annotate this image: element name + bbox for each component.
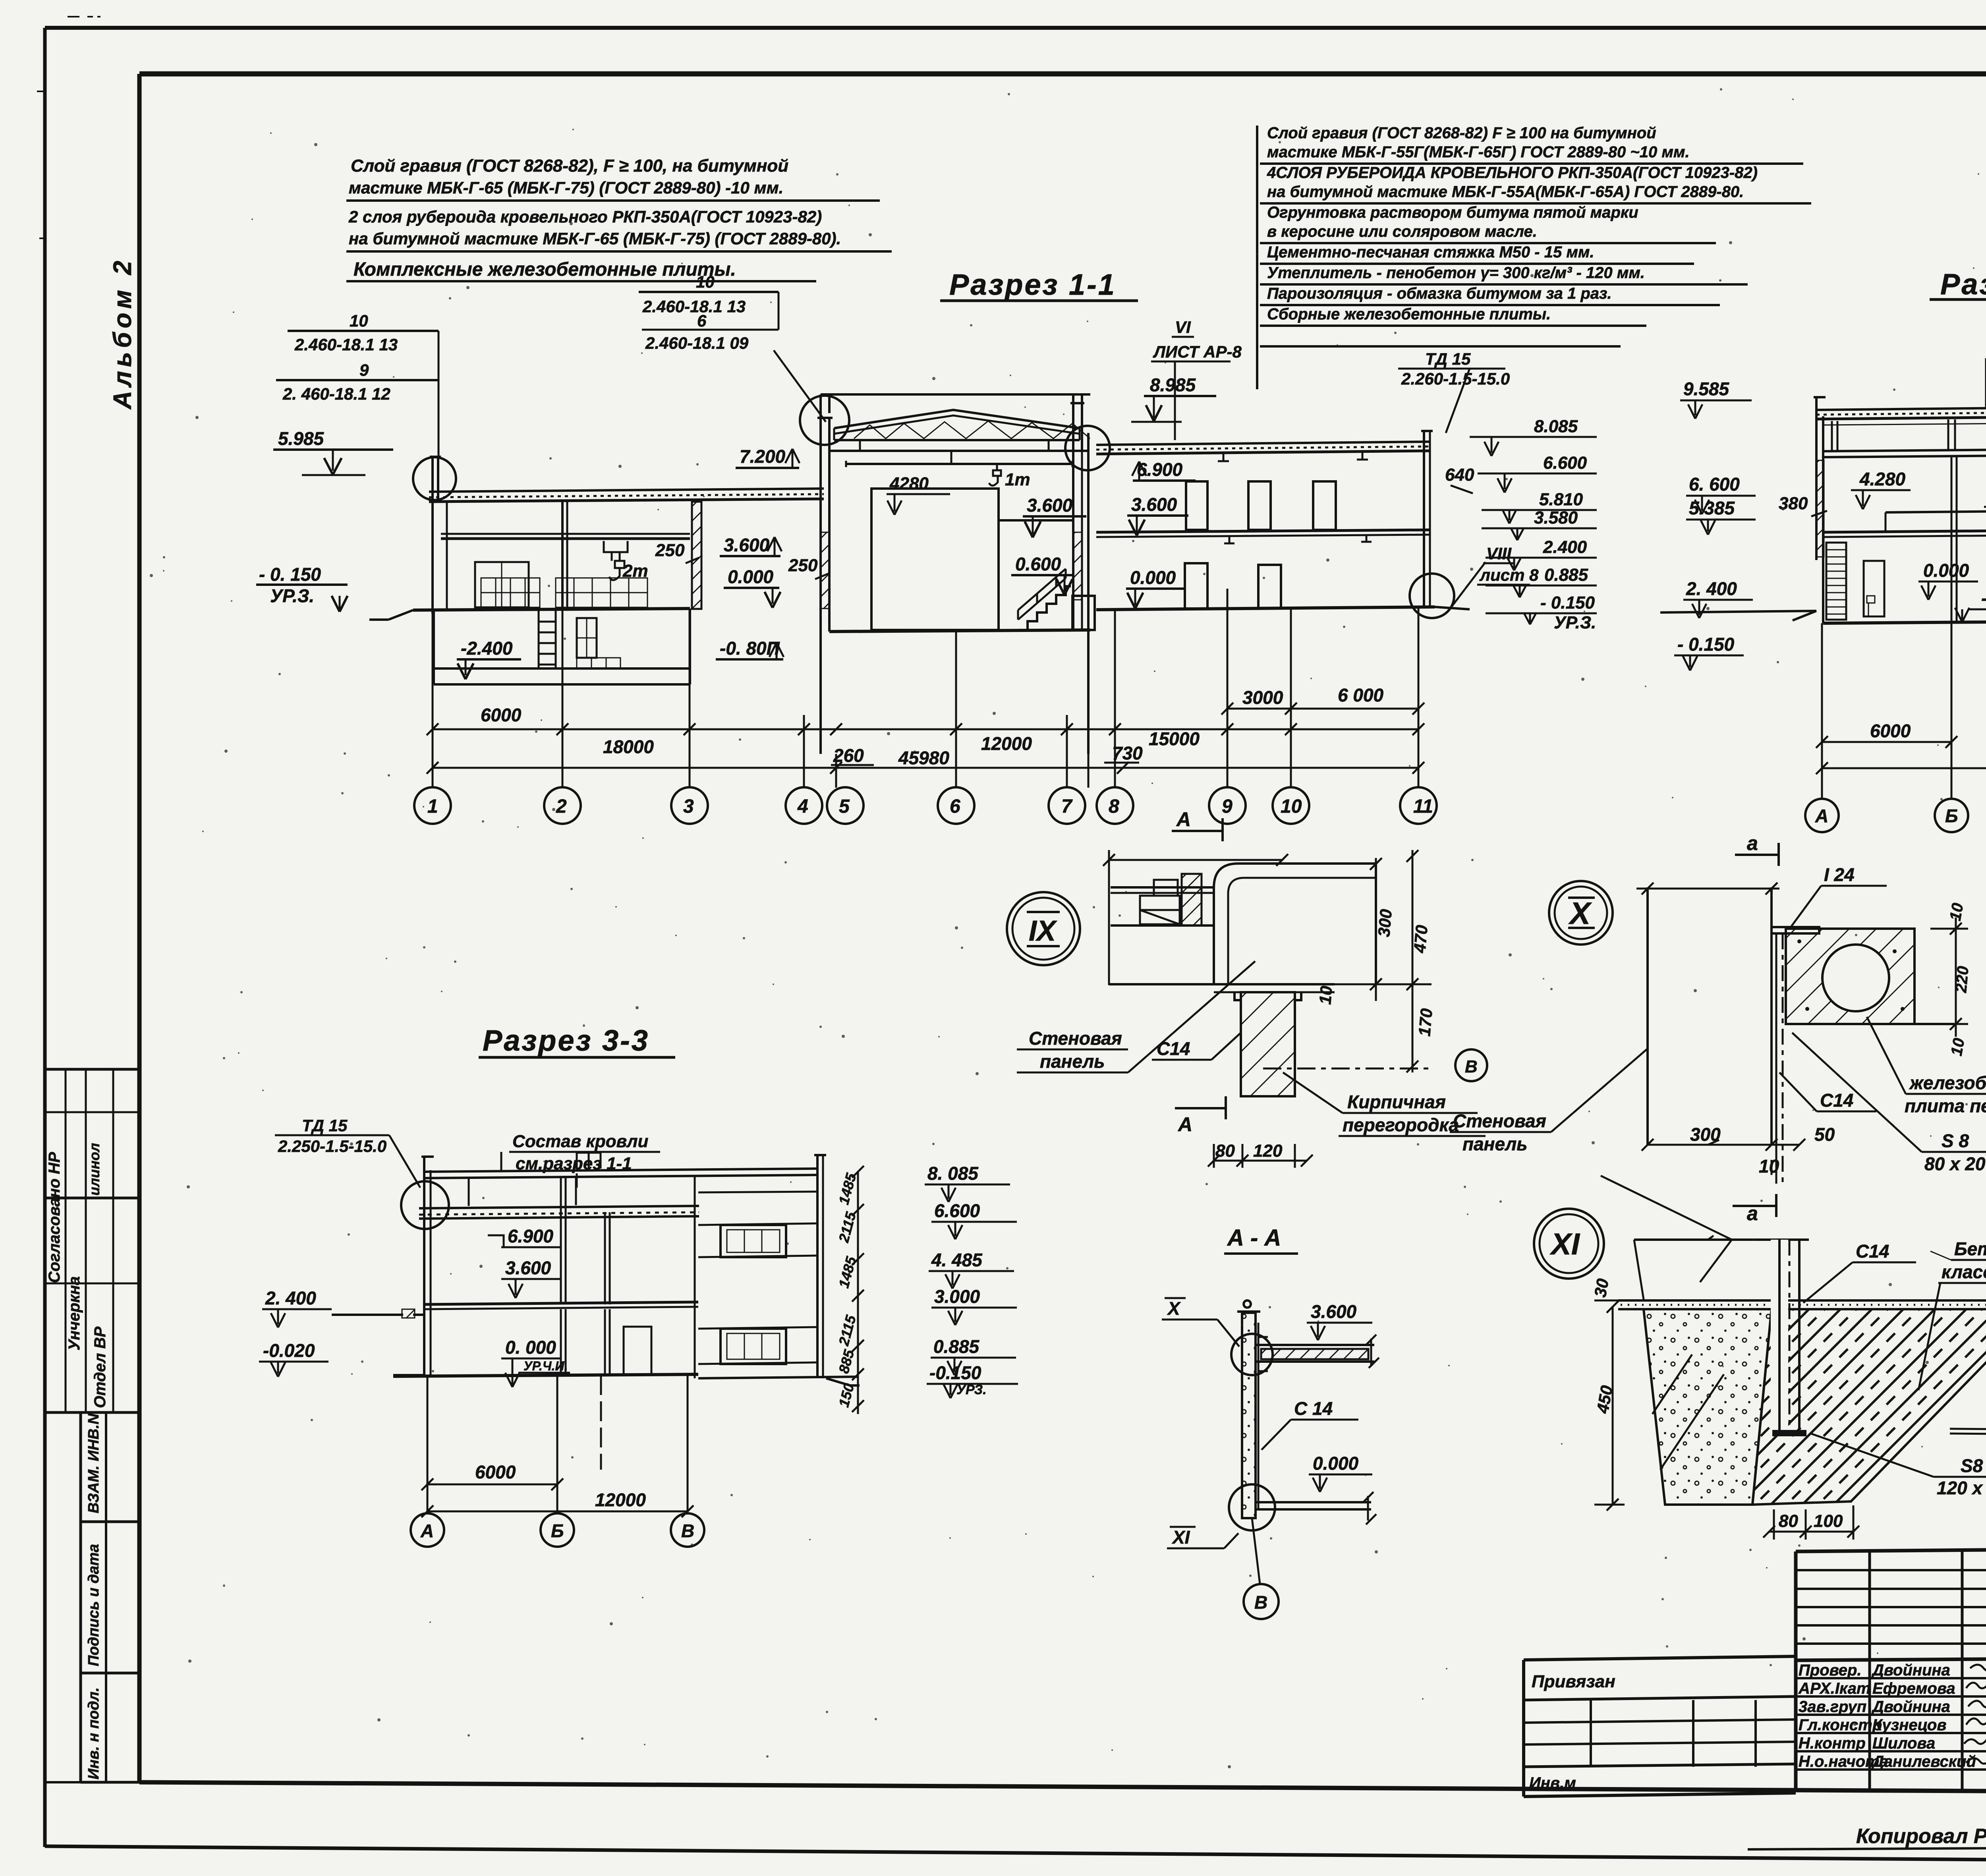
column axis2 (562, 502, 567, 609)
svg-text:2. 400: 2. 400 (265, 1288, 316, 1308)
second floor slab right bldg (1096, 530, 1430, 543)
svg-text:- 0. 150: - 0. 150 (259, 564, 321, 585)
lower slab A-A (1256, 1492, 1376, 1524)
section mark a bottom (1733, 1194, 1776, 1225)
node circle axis1 top (413, 457, 456, 500)
svg-text:11: 11 (1413, 796, 1433, 817)
svg-text:170: 170 (1415, 1008, 1436, 1037)
svg-text:Сборные железобетонные плиты: Сборные железобетонные плиты. (1267, 305, 1551, 323)
svg-text:6000: 6000 (1870, 721, 1911, 741)
svg-text:300: 300 (1374, 908, 1395, 938)
title Razrez 2-2 (1940, 268, 1986, 301)
crane beam level line (441, 534, 690, 539)
big equipment block 4280 (871, 489, 999, 630)
svg-text:4СЛОЯ РУБЕРОИДА КРОВЕЛЬНОГО РК: 4СЛОЯ РУБЕРОИДА КРОВЕЛЬНОГО РКП-350А(ГОС… (1267, 164, 1758, 182)
svg-text:100: 100 (1814, 1511, 1843, 1531)
svg-text:1: 1 (427, 796, 438, 817)
section mark A near IX (1172, 808, 1223, 841)
label 4280 (887, 474, 950, 515)
outer border top (45, 26, 1986, 30)
svg-text:4: 4 (797, 796, 808, 817)
ground slab 2-2 (1660, 610, 1986, 623)
a mark XI (0, 0, 1, 1)
X marker top (1162, 1298, 1239, 1347)
XI concrete slab (1752, 1309, 1986, 1505)
inner frame bottom (139, 1782, 1986, 1794)
level 7.200 (736, 446, 800, 468)
svg-text:А: А (1177, 1113, 1192, 1136)
svg-text:Двойнина: Двойнина (1871, 1698, 1950, 1716)
svg-text:10: 10 (1947, 902, 1967, 922)
fold marks (37, 17, 100, 238)
svg-text:Инв. н подл.: Инв. н подл. (85, 1687, 102, 1779)
svg-text:Б: Б (1945, 806, 1958, 826)
svg-text:80 x 200: 80 x 200 (1924, 1153, 1986, 1174)
svg-text:220: 220 (1952, 965, 1972, 993)
window band + 6.600 slab (1823, 416, 1986, 457)
right bldg right wall (1421, 431, 1433, 608)
IX labels (1017, 961, 1486, 1136)
svg-text:- 0.150: - 0.150 (1540, 593, 1595, 612)
VIII list 8 label (1477, 544, 1539, 585)
roof slab right bldg (1096, 442, 1430, 461)
right levels stack of razrez 1-1 (1445, 417, 1597, 632)
mid slab high bay right part (999, 519, 1130, 522)
svg-text:Слой гравия (ГОСТ 8268-82) F: Слой гравия (ГОСТ 8268-82) F ≥ 100 на би… (1267, 124, 1656, 142)
svg-text:Комплексные железобетонные: Комплексные железобетонные плиты. (354, 259, 736, 280)
svg-text:5.810: 5.810 (1539, 490, 1583, 509)
svg-text:С 14: С 14 (1294, 1398, 1333, 1419)
svg-text:плита перекрытия: плита перекрытия (1905, 1095, 1986, 1116)
XI labels (1803, 1241, 1916, 1303)
svg-text:а: а (1747, 832, 1758, 854)
small ledge left 3-3 (332, 1315, 425, 1375)
svg-text:6000: 6000 (475, 1462, 516, 1482)
svg-text:15000: 15000 (1149, 728, 1200, 749)
right levels stack 3-3 (925, 1163, 1018, 1398)
svg-text:0.885: 0.885 (933, 1336, 980, 1357)
inner frame top thick (139, 71, 1986, 77)
svg-text:2115: 2115 (835, 1313, 859, 1348)
XI pit top (1601, 1176, 1809, 1299)
levels 6.900 3.600 (488, 1226, 561, 1298)
svg-text:45980: 45980 (898, 748, 949, 768)
svg-text:7: 7 (1061, 796, 1073, 817)
privyazan table (1524, 1656, 1796, 1797)
IX bottom dims 80 120 (1208, 1141, 1313, 1168)
outer border left (43, 28, 47, 1847)
dim row2 total (427, 743, 1424, 774)
column mid (446, 502, 448, 609)
svg-text:Утеплитель - пенобетон γ= 300: Утеплитель - пенобетон γ= 300 кг/м³ - 12… (1267, 264, 1645, 282)
left grid small rows (1796, 1551, 1986, 1790)
ur.z ground right extension (1435, 607, 1470, 609)
svg-text:250: 250 (655, 541, 685, 560)
bubble G above (0, 0, 1, 1)
stairs 2-2 (1826, 543, 1884, 620)
svg-text:2. 400: 2. 400 (1686, 578, 1737, 599)
svg-text:С14: С14 (1157, 1038, 1190, 1059)
svg-text:8: 8 (1109, 796, 1119, 817)
suspended ceiling beam (830, 440, 1088, 467)
svg-text:3.600: 3.600 (1027, 495, 1073, 516)
X bottom dims 300 50 10 (1642, 1124, 1835, 1177)
ref label above high bay 10/13 6/09 (639, 272, 826, 422)
stairs high bay (1018, 569, 1095, 630)
svg-text:0.000: 0.000 (728, 566, 774, 587)
dim 380 (1779, 494, 1827, 516)
ground line step left (369, 610, 413, 620)
hatched partition axis3 (692, 502, 701, 609)
level -0.800 (716, 638, 784, 659)
svg-text:ТД 15: ТД 15 (1425, 350, 1471, 368)
svg-text:470: 470 (1410, 924, 1431, 954)
svg-text:- 0. 800: - 0. 800 (1981, 588, 1986, 609)
X labels plita (1867, 1017, 1986, 1116)
svg-text:мастике МБК-Г-55Г(МБК-Г-65Г) Г: мастике МБК-Г-55Г(МБК-Г-65Г) ГОСТ 2889-8… (1267, 143, 1690, 161)
level 0.600 (1011, 554, 1072, 595)
svg-text:7.200: 7.200 (740, 446, 786, 467)
svg-text:4.280: 4.280 (1859, 469, 1906, 489)
hatched left wall patch (1816, 460, 1824, 557)
svg-text:Данилевский: Данилевский (1871, 1753, 1976, 1770)
svg-text:3.600: 3.600 (724, 535, 770, 555)
svg-text:Стеновая: Стеновая (1029, 1028, 1122, 1049)
svg-text:Альбом 2: Альбом 2 (108, 257, 137, 410)
level mark -0.150 UR.Z. left (256, 564, 348, 612)
svg-text:12000: 12000 (981, 733, 1032, 754)
VI list AR-8 marker (1151, 318, 1242, 440)
XI column (1772, 1240, 1806, 1436)
svg-text:3.000: 3.000 (934, 1286, 980, 1307)
svg-text:С14: С14 (1856, 1241, 1889, 1262)
svg-text:УР.З.: УР.З. (1554, 613, 1596, 632)
svg-text:X: X (1568, 896, 1592, 931)
svg-text:на битумной мастике МБК-Г-65 (: на битумной мастике МБК-Г-65 (МБК-Г-75) … (349, 229, 841, 248)
svg-text:2 слоя рубероида кровельного: 2 слоя рубероида кровельного РКП-350А(ГО… (348, 207, 822, 226)
svg-text:Х: Х (1167, 1298, 1181, 1319)
svg-text:10: 10 (1948, 1037, 1968, 1057)
svg-text:250: 250 (788, 556, 818, 575)
svg-text:4. 485: 4. 485 (931, 1250, 983, 1270)
basement floor (689, 609, 691, 684)
XI left dims 30 450 (1591, 1277, 1625, 1511)
svg-text:4280: 4280 (889, 474, 929, 493)
svg-text:10: 10 (1316, 985, 1336, 1005)
IX floor line (1109, 984, 1335, 992)
node bubble V (B) (1455, 1049, 1487, 1081)
svg-text:10: 10 (696, 272, 715, 291)
svg-text:I 24: I 24 (1824, 864, 1855, 885)
node circle axis7/8 (1065, 426, 1110, 470)
svg-text:80: 80 (1215, 1141, 1235, 1161)
sostav krovli 3-3 (501, 1132, 660, 1188)
X right dim 10/220/10 (1930, 902, 1972, 1057)
level 3.600 left bldg (720, 535, 782, 556)
bubbles A B V G (1805, 799, 1986, 832)
svg-text:5.985: 5.985 (278, 428, 325, 449)
svg-text:А: А (420, 1521, 434, 1541)
svg-text:9: 9 (1222, 796, 1233, 817)
detail circle XI (1534, 1209, 1604, 1279)
high bay right wall (1070, 403, 1088, 754)
svg-text:-0.020: -0.020 (263, 1340, 315, 1361)
svg-text:В: В (1254, 1592, 1267, 1613)
building 3-3 walls (421, 1155, 826, 1378)
svg-text:УР.З.: УР.З. (270, 585, 314, 606)
svg-text:6.600: 6.600 (934, 1200, 980, 1221)
dims 3-3 (421, 1462, 694, 1517)
level mark 5.985 (273, 428, 393, 475)
svg-text:Унчеркна: Унчеркна (66, 1276, 83, 1350)
svg-text:2.460-18.1 13: 2.460-18.1 13 (642, 297, 746, 316)
svg-text:1485: 1485 (835, 1254, 860, 1290)
wall A-A (1237, 1300, 1260, 1518)
svg-text:S 8: S 8 (1942, 1130, 1969, 1151)
node circle upper (1231, 1334, 1273, 1375)
svg-text:Состав кровли: Состав кровли (512, 1132, 649, 1151)
outline walls (1814, 397, 1986, 623)
top-left roofing spec text block (348, 156, 841, 280)
bubbles 3-3 (411, 1513, 704, 1547)
svg-text:3.600: 3.600 (505, 1258, 551, 1278)
bottom handwriting (1856, 1811, 1986, 1851)
svg-text:2: 2 (556, 796, 567, 817)
svg-text:730: 730 (1112, 743, 1143, 763)
left wall axis1 (430, 457, 441, 614)
XI marker (1167, 1527, 1238, 1548)
svg-text:0.000: 0.000 (1130, 567, 1176, 588)
svg-text:120 x 200: 120 x 200 (1937, 1478, 1986, 1498)
svg-text:6: 6 (697, 311, 707, 330)
svg-text:АРХ.Iкат: АРХ.Iкат (1798, 1680, 1871, 1697)
IX bottom section mark A (1175, 1096, 1226, 1136)
svg-text:В: В (681, 1521, 694, 1541)
svg-text:6.900: 6.900 (508, 1226, 554, 1246)
roof slab left bldg (429, 489, 824, 502)
node circle axis4/5 (800, 396, 849, 445)
vertical dim chain 3-3 (835, 1166, 864, 1414)
svg-text:2. 460-18.1 12: 2. 460-18.1 12 (282, 384, 390, 403)
svg-text:0.600: 0.600 (1015, 554, 1061, 574)
IX top dim line (1103, 850, 1288, 985)
0.000 level A-A (1309, 1453, 1372, 1492)
svg-text:Цементно-песчаная стяжка М50 -: Цементно-песчаная стяжка М50 - 15 мм. (1267, 243, 1594, 261)
crane hook 2t (604, 541, 648, 581)
svg-text:перегородка: перегородка (1343, 1115, 1459, 1135)
svg-text:2.460-18.1 09: 2.460-18.1 09 (645, 334, 749, 352)
svg-text:80: 80 (1779, 1511, 1798, 1531)
svg-text:Гл.констр: Гл.констр (1799, 1716, 1882, 1734)
X slab hatched with hole (1786, 929, 1954, 1024)
C14 label A-A (1262, 1398, 1358, 1450)
vent stacks ground floor (1185, 563, 1281, 609)
svg-text:5: 5 (839, 796, 850, 817)
svg-text:S8: S8 (1961, 1455, 1983, 1476)
svg-text:илинол: илинол (86, 1143, 102, 1196)
svg-text:Кузнецов: Кузнецов (1872, 1716, 1947, 1734)
svg-text:Разрез 2-2: Разрез 2-2 (1940, 268, 1986, 301)
equipment tables left bldg (475, 562, 647, 607)
mid slab 3-3 (402, 1302, 698, 1318)
svg-text:2115: 2115 (835, 1210, 859, 1244)
svg-text:Стеновая: Стеновая (1453, 1111, 1546, 1131)
svg-text:Провер.: Провер. (1799, 1662, 1862, 1679)
dim sub row 3000/6000 (1221, 685, 1424, 715)
svg-text:9.585: 9.585 (1683, 379, 1730, 399)
IX brick partition (1234, 992, 1301, 1096)
svg-text:0. 000: 0. 000 (505, 1337, 556, 1358)
svg-text:12000: 12000 (595, 1490, 646, 1510)
right elevation band 3-3 (698, 1192, 817, 1364)
svg-text:ВЗАМ. ИНВ.N: ВЗАМ. ИНВ.N (85, 1413, 102, 1513)
svg-text:железобетонная: железобетонная (1909, 1072, 1986, 1093)
level 0.000 left bldg (724, 566, 780, 608)
staff names (1798, 1662, 1976, 1770)
svg-text:640: 640 (1445, 465, 1474, 485)
svg-text:Инв.м: Инв.м (1529, 1774, 1576, 1792)
title (483, 1024, 649, 1057)
detail circle IX (1007, 892, 1080, 965)
svg-text:6: 6 (950, 796, 960, 817)
high bay floor (829, 630, 1090, 632)
dim 250 left (655, 541, 699, 563)
svg-text:ЛИСТ АР-8: ЛИСТ АР-8 (1153, 342, 1242, 361)
ground floor slab left bldg (413, 609, 690, 610)
svg-text:на битумной мастике МБК-Г-55А(: на битумной мастике МБК-Г-55А(МБК-Г-65А)… (1267, 183, 1744, 201)
1t hook (989, 464, 1030, 489)
svg-text:120: 120 (1253, 1141, 1283, 1161)
basement stairs (539, 611, 556, 668)
svg-text:10: 10 (1759, 1156, 1779, 1177)
axes 3-3 (427, 1375, 688, 1513)
svg-text:50: 50 (1814, 1124, 1835, 1145)
svg-text:Разрез 3-3: Разрез 3-3 (483, 1024, 649, 1057)
svg-text:Бетон: Бетон (1954, 1238, 1986, 1259)
interior columns 3-3 (561, 1175, 695, 1378)
svg-text:2.260-1.5-15.0: 2.260-1.5-15.0 (1401, 369, 1510, 388)
svg-text:Огрунтовка раствором битума п: Огрунтовка раствором битума пятой марки (1267, 204, 1638, 221)
svg-text:6000: 6000 (481, 705, 522, 725)
node circle lower (1229, 1484, 1275, 1530)
svg-text:8. 085: 8. 085 (927, 1163, 979, 1184)
axes 2-2 (1822, 622, 1986, 798)
top-right roofing spec block (1267, 124, 1758, 323)
XI bottom dims 80 100 (1763, 1505, 1859, 1540)
svg-text:Пароизоляция - обмазка битумом: Пароизоляция - обмазка битумом за 1 раз. (1267, 285, 1612, 302)
left margin stamp lower boxes (46, 1412, 139, 1782)
svg-text:10: 10 (350, 311, 368, 330)
svg-text:Разрез 1-1: Разрез 1-1 (949, 268, 1116, 301)
signatures squiggles (1964, 1665, 1986, 1764)
level 3.600 right bldg (1127, 494, 1188, 535)
svg-text:мастике МБК-Г-65 (МБК-Г-75) (Г: мастике МБК-Г-65 (МБК-Г-75) (ГОСТ 2889-8… (349, 178, 783, 197)
level 0.000 right bldg (1126, 567, 1186, 609)
svg-text:УР.Ч.И.: УР.Ч.И. (524, 1359, 568, 1373)
svg-text:0.000: 0.000 (1313, 1453, 1359, 1474)
svg-text:VI: VI (1175, 318, 1191, 336)
left margin stamp upper table (46, 1069, 139, 1412)
svg-text:панель: панель (1040, 1051, 1105, 1072)
XI pit trapezoid (1644, 1309, 1772, 1505)
wall axis4/5 hatched (817, 418, 833, 754)
svg-text:3ав.груп: 3ав.груп (1799, 1698, 1866, 1716)
ground floor slab right bldg (1096, 607, 1435, 610)
svg-text:6 0​00: 6 0​00 (1338, 685, 1384, 705)
svg-text:260: 260 (833, 745, 864, 766)
svg-text:18000: 18000 (603, 736, 654, 757)
X stenovaya panel label (1450, 1049, 1648, 1154)
svg-text:Кирпичная: Кирпичная (1347, 1092, 1446, 1112)
svg-text:Б: Б (551, 1521, 564, 1541)
IX window assembly (1111, 874, 1214, 925)
svg-text:0.000: 0.000 (1923, 560, 1969, 581)
interior columns 2-2 (1951, 456, 1986, 622)
svg-text:Двойнина: Двойнина (1871, 1662, 1950, 1679)
IX wall panel (1214, 864, 1376, 984)
svg-text:1485: 1485 (835, 1171, 860, 1206)
svg-text:3: 3 (683, 796, 694, 817)
basement window (577, 618, 620, 668)
section title Razrez 1-1 (949, 268, 1116, 301)
svg-text:А: А (1815, 806, 1828, 826)
svg-text:Привязан: Привязан (1532, 1672, 1615, 1691)
X wall panel (1636, 883, 1779, 1145)
svg-text:в керосине или соляровом масл: в керосине или соляровом масле. (1267, 223, 1537, 240)
svg-text:А: А (1176, 808, 1191, 831)
IX right dims (1263, 850, 1436, 1072)
svg-text:ХI: ХI (1171, 1527, 1190, 1548)
main outline (1796, 1545, 1986, 1790)
mid slab 2-2 (1823, 510, 1986, 537)
svg-text:3000: 3000 (1242, 687, 1283, 708)
node circle VIII bottom right (1410, 562, 1486, 618)
svg-text:XI: XI (1549, 1227, 1580, 1261)
svg-text:3.600: 3.600 (1311, 1301, 1357, 1322)
dims 2-2 (1816, 721, 1986, 774)
inner frame left (137, 74, 142, 1782)
ref label 9/2.460-18.1 12 left (276, 361, 439, 403)
svg-text:3.600: 3.600 (1131, 494, 1177, 515)
svg-text:Подпись и дата: Подпись и дата (85, 1544, 102, 1666)
level -2.400 (457, 638, 521, 679)
svg-text:150: 150 (835, 1381, 857, 1409)
TD15 label top (1398, 350, 1510, 433)
outer border bottom (45, 1846, 1986, 1864)
XI right dims 130 300 8 (1950, 1291, 1986, 1451)
I24 label (1791, 864, 1887, 926)
TD15 label (275, 1116, 420, 1188)
svg-text:Шилова: Шилова (1872, 1735, 1935, 1752)
leader to bubble B (1252, 1518, 1260, 1584)
svg-text:ТД 15: ТД 15 (302, 1116, 348, 1135)
dim 250 right (788, 556, 829, 579)
level 3.600 high bay (1023, 495, 1086, 537)
svg-text:Отдел ВР: Отдел ВР (91, 1327, 109, 1408)
svg-text:10: 10 (1281, 796, 1302, 817)
3.600 level A-A (1307, 1301, 1372, 1340)
dim row1 segments (427, 705, 1424, 757)
svg-text:2.400: 2.400 (1543, 537, 1587, 557)
XI ground line (1618, 1300, 1986, 1309)
svg-text:Согласовано НР: Согласовано НР (46, 1152, 63, 1283)
bubble B A-A (1244, 1584, 1279, 1619)
level 8.985 (1131, 375, 1216, 422)
svg-text:- 0.150: - 0.150 (1677, 634, 1735, 655)
ground 3-3 (393, 1374, 860, 1385)
axis lines down (433, 589, 1418, 788)
detail circle X (1549, 881, 1613, 945)
